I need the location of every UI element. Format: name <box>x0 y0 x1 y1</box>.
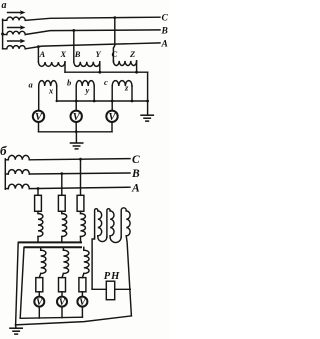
secondary winding b-y <box>76 81 94 86</box>
label y (secondary) <box>85 85 90 95</box>
svg-text:V: V <box>73 112 81 123</box>
label a (secondary) <box>29 79 34 89</box>
svg-text:а: а <box>2 0 7 11</box>
node tap B <box>72 29 75 62</box>
wire V1 to bus <box>38 122 40 132</box>
fuse F6 (secondary) <box>79 278 86 292</box>
label C (winding T3) <box>112 49 118 59</box>
U link coil1-elem2 <box>98 236 107 242</box>
svg-text:X: X <box>60 49 67 59</box>
aux winding element 3 <box>121 208 130 237</box>
svg-text:y: y <box>85 85 90 95</box>
svg-text:V: V <box>108 112 116 123</box>
primary winding W2 (fig b) <box>62 214 67 237</box>
wire bus to secondary winding S1 <box>40 247 42 250</box>
wire winding W3 to star bus <box>80 237 82 243</box>
primary star bus <box>65 71 148 73</box>
wire line to fuse F3 <box>80 159 82 195</box>
wire V1 to bottom bus (fig b) <box>38 307 40 318</box>
wire line C (fig a) <box>25 17 160 20</box>
wire to ground (fig b) <box>15 325 17 328</box>
primary winding W1 (fig b) <box>38 214 43 237</box>
wire fuse F2 to primary winding <box>61 211 63 213</box>
wire X to star bus <box>64 62 66 72</box>
ground primary star <box>140 115 154 121</box>
voltmeter bus (fig a) <box>39 131 113 133</box>
relay PH box <box>106 281 114 300</box>
wire fuse to voltmeter V1 (fig b) <box>38 292 40 297</box>
voltmeter V1 (fig b) <box>34 297 44 309</box>
secondary winding S1 (fig b) <box>41 250 46 273</box>
svg-text:C: C <box>132 154 140 166</box>
wire fuse to voltmeter V2 (fig b) <box>61 292 63 297</box>
fuse F4 (secondary) <box>36 278 43 292</box>
wire line B (fig b) <box>29 173 130 174</box>
node Y-star <box>98 62 101 74</box>
wire b to V2 <box>75 86 78 110</box>
svg-text:x: x <box>48 86 54 96</box>
wire PH left <box>92 288 106 290</box>
label X (winding T1) <box>60 49 67 59</box>
voltmeter V3 (fig a) <box>106 111 117 123</box>
ground wire left outer <box>16 242 19 324</box>
wire bus to secondary winding S2 <box>62 247 64 250</box>
svg-text:b: b <box>67 78 71 88</box>
secondary winding S3 (fig b) <box>84 250 89 273</box>
node tap phase B (fig b) <box>60 172 63 175</box>
fuse F2 <box>58 195 65 211</box>
ground voltmeter bus <box>70 143 84 149</box>
reactor coil L1 on line C <box>3 17 26 20</box>
reactor coil L2 on line B <box>3 31 26 34</box>
fuse F3 <box>77 195 84 211</box>
arrow over L2 <box>8 25 26 30</box>
wire fuse to voltmeter V3 (fig b) <box>81 292 83 297</box>
svg-text:B: B <box>131 168 140 180</box>
voltmeter rail (fig b) <box>20 317 82 318</box>
bus left vertical (fig b) <box>4 159 6 189</box>
secondary star bus (fig b) <box>24 246 82 248</box>
outer ground rail (fig b) <box>16 316 132 325</box>
svg-text:C: C <box>162 14 169 24</box>
wire y to star <box>93 86 96 102</box>
svg-text:A: A <box>161 39 168 49</box>
wire bus to ground (fig a) <box>75 132 77 143</box>
fuse F1 <box>35 195 42 211</box>
label A (line A fig a) <box>161 39 168 49</box>
wire line A (fig b) <box>29 187 130 188</box>
label b (secondary) <box>67 78 71 88</box>
label B (line B fig a) <box>161 26 168 36</box>
voltmeter V1 (fig a) <box>33 111 44 123</box>
svg-text:б: б <box>0 143 7 158</box>
wire PH right <box>115 288 131 290</box>
wire line C (fig b) <box>29 159 130 160</box>
wire winding W2 to star bus <box>61 237 63 243</box>
secondary winding S2 (fig b) <box>63 250 68 273</box>
wire z to star <box>131 86 134 102</box>
label A (fig b) <box>131 182 140 194</box>
label x (secondary) <box>48 86 54 96</box>
bus left vertical (fig a) <box>1 19 4 49</box>
wire elem1 to PH <box>92 237 95 289</box>
wire line B (fig a) <box>25 30 160 35</box>
right vertical wire (fig b) <box>126 236 131 316</box>
wire V3 to bottom bus (fig b) <box>81 307 83 318</box>
aux winding element 1 <box>95 209 102 237</box>
node tap phase C (fig b) <box>79 158 82 161</box>
secondary winding c-z <box>112 81 132 86</box>
primary winding W3 (fig b) <box>81 214 86 237</box>
ground wire left inner <box>20 247 24 318</box>
svg-text:V: V <box>35 112 43 123</box>
label Z (winding T3) <box>129 49 135 59</box>
label A (winding T1) <box>39 49 46 59</box>
reactor coil on line B (fig b) <box>5 170 29 174</box>
reactor coil L3 on line A <box>3 46 26 49</box>
wire line to fuse F2 <box>61 174 63 196</box>
wire S2 to fuse <box>62 274 63 278</box>
reactor coil on line A (fig b) <box>5 184 29 188</box>
wire fuse F3 to primary winding <box>80 211 82 213</box>
svg-text:B: B <box>161 26 168 36</box>
node tap C <box>113 16 116 62</box>
label B (fig b) <box>131 168 140 180</box>
label PH relay <box>104 271 120 282</box>
wire bus to secondary winding S3 <box>83 247 85 250</box>
primary winding B-Y (T2) <box>74 62 100 67</box>
ground (fig b) <box>9 328 23 334</box>
label C (line C fig a) <box>162 14 169 24</box>
primary star bus (fig b) <box>18 241 82 243</box>
U link coil2-elem3 <box>110 236 121 243</box>
svg-text:Y: Y <box>96 49 102 59</box>
wire winding W1 to star bus <box>37 237 39 243</box>
label c (secondary) <box>104 77 108 87</box>
arrow over L3 (faint) <box>8 39 26 44</box>
wire c to V3 <box>111 86 114 110</box>
wire line A (fig a) <box>25 43 160 49</box>
wire star to ground (right) <box>147 72 149 115</box>
wire a to V1 <box>38 86 40 110</box>
svg-text:A: A <box>39 49 46 59</box>
voltmeter V2 (fig a) <box>71 111 82 123</box>
primary winding A-X (T1) <box>38 62 65 66</box>
secondary star bus <box>57 100 149 103</box>
label C (fig b) <box>132 154 140 166</box>
primary winding C-Z (T3) <box>113 61 136 66</box>
svg-text:z: z <box>124 82 129 92</box>
wire x to star <box>56 86 58 102</box>
svg-text:C: C <box>112 49 118 59</box>
wire fuse F1 to primary winding <box>37 211 39 213</box>
label а (figure a) <box>2 0 7 11</box>
reactor coil on line C (fig b) <box>5 155 29 159</box>
node tap phase A (fig b) <box>37 187 40 190</box>
wire V2 to bus <box>75 122 78 133</box>
voltmeter V3 (fig b) <box>77 297 87 309</box>
svg-text:A: A <box>131 182 140 194</box>
fuse F5 (secondary) <box>59 278 66 292</box>
voltmeter V2 (fig b) <box>57 297 67 309</box>
wire S1 to fuse <box>39 274 40 278</box>
label б (figure b) <box>0 143 7 158</box>
node Z-star <box>135 61 138 74</box>
wire V3 to bus <box>111 122 113 132</box>
secondary winding a-x <box>39 81 57 86</box>
arrow over L1 <box>8 10 26 15</box>
svg-text:Z: Z <box>129 49 135 59</box>
label B (winding T2) <box>74 49 81 59</box>
wire S3 to fuse <box>82 274 83 278</box>
wire line to fuse F1 <box>37 189 39 196</box>
label z (secondary) <box>124 82 129 92</box>
svg-text:B: B <box>74 49 81 59</box>
wire V2 to bottom bus (fig b) <box>61 307 63 318</box>
label Y (winding T2) <box>96 49 102 59</box>
node tap A <box>37 45 40 62</box>
svg-text:а: а <box>29 79 34 89</box>
svg-text:c: c <box>104 77 108 87</box>
aux winding element 2 <box>107 209 114 237</box>
